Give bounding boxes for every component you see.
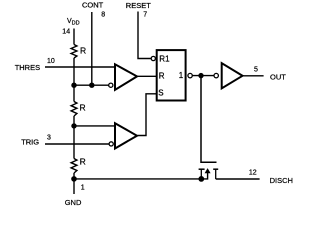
svg-text:8: 8 bbox=[101, 12, 105, 19]
svg-text:TRIG: TRIG bbox=[21, 138, 39, 147]
svg-text:12: 12 bbox=[249, 169, 257, 176]
resistor R (top) bbox=[71, 45, 77, 59]
wire divider upper-middle segment bbox=[73, 58, 75, 102]
wire comparator 1 output to latch R input bbox=[138, 75, 157, 77]
svg-text:THRES: THRES bbox=[15, 63, 40, 72]
resistor R (bottom) bbox=[71, 159, 77, 174]
wire TRIG input line bbox=[45, 143, 109, 145]
svg-text:10: 10 bbox=[47, 58, 55, 65]
svg-text:R: R bbox=[159, 72, 165, 81]
bubble inverter input bbox=[214, 73, 218, 77]
latch U4 box bbox=[157, 50, 186, 100]
svg-text:GND: GND bbox=[65, 198, 82, 207]
wire node B line to comparator 2 noninverting input bbox=[74, 125, 115, 127]
svg-text:3: 3 bbox=[47, 135, 51, 142]
bubble comparator 2 inverting input bbox=[109, 142, 113, 146]
Q1 body arrow tail bbox=[201, 172, 207, 179]
comparator U2 (trigger) bbox=[115, 123, 137, 148]
svg-text:CONT: CONT bbox=[82, 1, 104, 10]
junction GND node bbox=[71, 176, 77, 182]
Q1 drain contact bar bbox=[215, 169, 217, 179]
junction node A at divider bbox=[71, 83, 76, 88]
svg-text:R: R bbox=[80, 156, 86, 166]
junction node B bbox=[71, 123, 76, 128]
svg-text:1: 1 bbox=[179, 71, 184, 80]
wire ground rail bbox=[74, 178, 201, 180]
svg-text:R: R bbox=[80, 45, 86, 55]
transistor Q1 discharge NMOS bbox=[199, 169, 219, 179]
wire R3 to ground rail and GND stub bbox=[73, 173, 75, 194]
bubble latch output bbox=[188, 73, 192, 77]
Q1 body arrow head bbox=[205, 168, 211, 173]
svg-text:S: S bbox=[158, 88, 163, 97]
wire RESET to latch R1 input bbox=[138, 12, 151, 59]
wire latch output to inverter input bbox=[192, 75, 214, 77]
bubble latch R1 input bbox=[151, 56, 155, 60]
svg-text:7: 7 bbox=[143, 12, 147, 19]
svg-text:RESET: RESET bbox=[126, 1, 151, 10]
svg-text:1: 1 bbox=[81, 185, 85, 192]
comparator U1 (threshold) bbox=[115, 64, 137, 90]
bubble comparator 1 inverting input bbox=[109, 83, 113, 87]
wire inverter output to OUT bbox=[243, 75, 264, 77]
svg-text:R: R bbox=[80, 103, 86, 113]
junction transistor source at ground rail bbox=[198, 176, 204, 182]
Q1 source contact cap bbox=[199, 168, 205, 170]
wire CONT stub bbox=[91, 12, 93, 85]
wire VDD stub bbox=[73, 29, 75, 45]
svg-text:DISCH: DISCH bbox=[270, 176, 293, 185]
wire DISCH line bbox=[216, 178, 260, 180]
svg-text:OUT: OUT bbox=[270, 73, 286, 82]
Q1 source contact bar bbox=[200, 169, 202, 179]
junction node A at CONT bbox=[89, 83, 94, 88]
junction latch output node bbox=[198, 73, 203, 78]
wire divider lower-middle segment bbox=[73, 116, 75, 159]
Q1 drain contact cap bbox=[213, 168, 218, 170]
op-amp U3 output inverter triangle bbox=[222, 63, 243, 88]
wire THRES input line bbox=[45, 66, 115, 68]
wire gate drive from latch output down to transistor gate bbox=[201, 76, 217, 163]
wire node A line to comparator 1 inverting input bbox=[74, 84, 109, 86]
svg-text:14: 14 bbox=[62, 29, 70, 36]
resistor R (middle) bbox=[71, 102, 77, 117]
wire comparator 2 output to latch S input bbox=[138, 94, 157, 136]
svg-text:5: 5 bbox=[254, 67, 258, 74]
svg-text:R1: R1 bbox=[159, 55, 170, 64]
